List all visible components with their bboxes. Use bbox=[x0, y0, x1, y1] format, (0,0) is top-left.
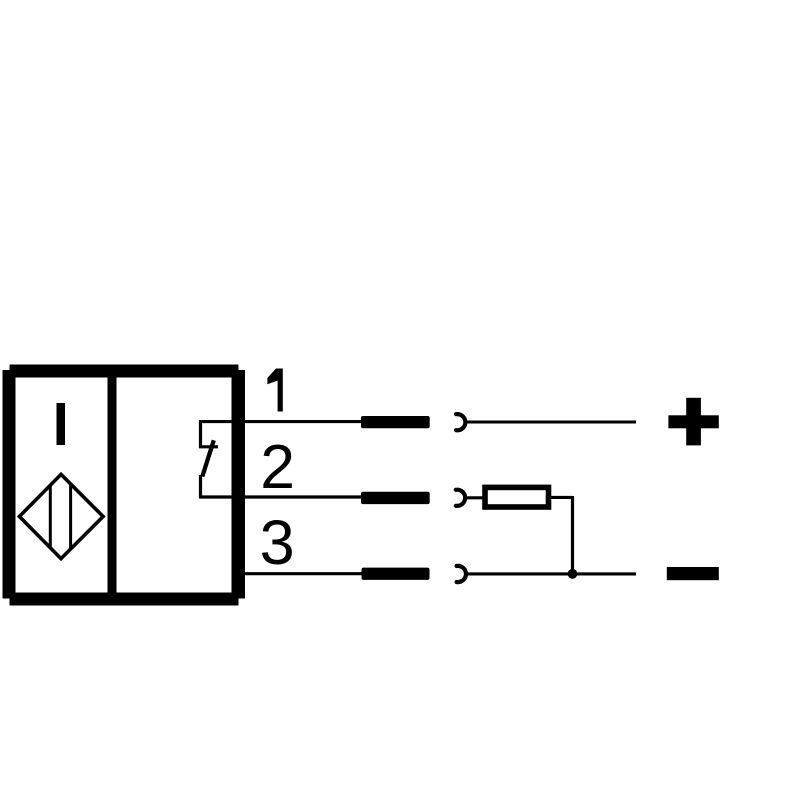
junction dot bbox=[568, 569, 578, 579]
wire pin3 to minus terminal bbox=[467, 572, 637, 575]
crimp bar pin 3 bbox=[362, 568, 430, 580]
plus terminal bbox=[668, 398, 718, 446]
crimp bar pin 2 bbox=[361, 492, 430, 504]
connector chevron pin 3 bbox=[457, 566, 466, 582]
svg-text:2: 2 bbox=[260, 432, 295, 502]
sensor body outer border top bar bbox=[10, 365, 239, 378]
wire pin1 to plus terminal bbox=[466, 420, 636, 423]
wire pin2 to load resistor bbox=[466, 496, 484, 499]
wire pin2 internal and external segment bbox=[199, 495, 363, 498]
pin label 2 bbox=[260, 432, 295, 502]
wire pin3 internal and external segment bbox=[232, 572, 363, 575]
sensing element indicator I bbox=[57, 403, 66, 445]
load resistor bbox=[485, 487, 549, 507]
connector chevron pin 2 bbox=[456, 490, 465, 506]
sensor body internal divider bbox=[108, 377, 117, 593]
pin label 1 bbox=[267, 369, 282, 412]
svg-text:3: 3 bbox=[260, 508, 295, 578]
wire corner down to junction bbox=[571, 496, 574, 574]
switch contact NO between pin1 and pin2 bbox=[199, 420, 218, 498]
sensor body outer border left bar bbox=[3, 370, 16, 599]
connector chevron pin 1 bbox=[456, 414, 465, 430]
sensor body outer border right bar bbox=[232, 370, 246, 599]
pin label 3 bbox=[260, 508, 295, 578]
sensor body outer border bottom bar bbox=[10, 593, 239, 606]
minus terminal bbox=[667, 567, 719, 580]
wire resistor to corner bbox=[548, 496, 573, 499]
wire pin1 internal and external segment bbox=[199, 420, 363, 423]
crimp bar pin 1 bbox=[361, 416, 430, 428]
amplifier diamond symbol bbox=[19, 474, 103, 558]
